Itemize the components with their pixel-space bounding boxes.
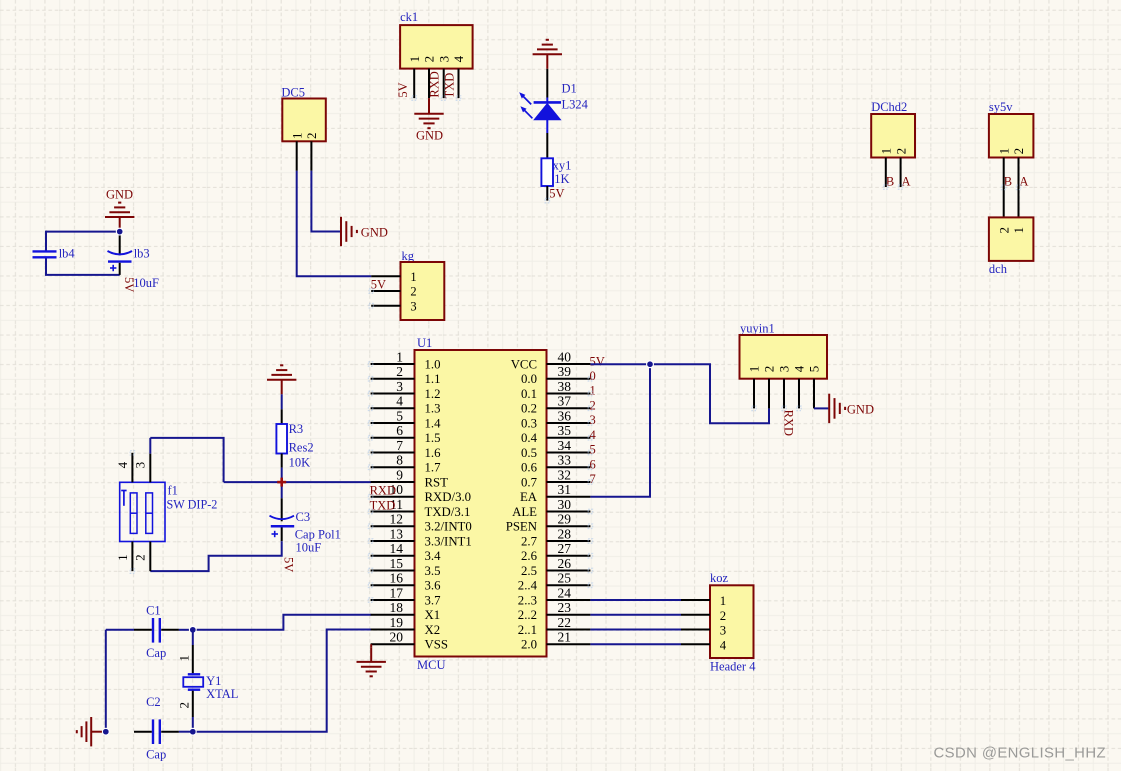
svg-text:17: 17 — [390, 585, 404, 600]
svg-text:30: 30 — [558, 497, 572, 512]
svg-text:CSDN @ENGLISH_HHZ: CSDN @ENGLISH_HHZ — [933, 746, 1106, 762]
pin U1.1 (1.0) — [371, 349, 441, 371]
pin Y1.2 — [177, 691, 193, 717]
pin f1.2 — [133, 542, 151, 572]
svg-text:21: 21 — [558, 630, 572, 645]
wire - C2 node to U1 pin19 (X2) — [193, 630, 371, 732]
svg-text:24: 24 — [558, 585, 572, 600]
svg-text:1.3: 1.3 — [425, 402, 441, 416]
svg-text:5V: 5V — [396, 82, 410, 97]
svg-text:GND: GND — [106, 187, 133, 201]
wire - Y1 top lead — [192, 630, 194, 645]
svg-text:34: 34 — [558, 438, 572, 453]
wire - U1 pin21 to koz.4 — [590, 643, 681, 645]
svg-text:31: 31 — [558, 482, 572, 497]
svg-text:TXD: TXD — [370, 498, 396, 512]
wire - Y1 bottom lead — [192, 717, 194, 732]
svg-text:35: 35 — [558, 423, 572, 438]
svg-text:f1: f1 — [168, 484, 178, 498]
junction - C1/Y1 node — [189, 626, 196, 633]
svg-text:26: 26 — [558, 556, 572, 571]
wire - node down to C3 — [281, 482, 283, 498]
junction - Y1/C2 node — [189, 728, 196, 735]
pin U1.40 (VCC) — [511, 349, 591, 371]
svg-text:RST: RST — [425, 475, 449, 489]
svg-text:3.2/INT0: 3.2/INT0 — [425, 520, 472, 534]
svg-text:2.5: 2.5 — [521, 564, 537, 578]
svg-text:0.2: 0.2 — [521, 402, 537, 416]
pin DChd2.1 — [885, 158, 887, 188]
pin U1.4 (1.3) — [371, 394, 441, 416]
svg-text:16: 16 — [390, 571, 404, 586]
pin yuyin1.1 — [753, 379, 755, 409]
wire - 5V branch to U1 pin31 (EA) — [590, 364, 650, 497]
pin U1.34 (0.5) — [521, 438, 590, 460]
power port GND (ck1 pin2) — [414, 98, 443, 142]
svg-text:Cap Pol1: Cap Pol1 — [295, 528, 341, 542]
pin yuyin1.5 — [813, 379, 815, 409]
svg-text:3: 3 — [777, 366, 792, 373]
svg-text:3.4: 3.4 — [425, 549, 442, 563]
svg-text:23: 23 — [558, 600, 572, 615]
svg-text:Y1: Y1 — [206, 674, 221, 688]
pin DC5.1 — [296, 141, 298, 171]
pin yuyin1.2 — [768, 379, 770, 409]
pin U1.31 (EA) — [520, 482, 590, 504]
svg-text:ck1: ck1 — [400, 10, 418, 24]
svg-text:1.2: 1.2 — [425, 387, 441, 401]
connector DChd2 — [871, 100, 915, 157]
svg-text:2: 2 — [410, 285, 416, 299]
pin U1.8 (1.7) — [371, 453, 441, 475]
pin U1.33 (0.6) — [521, 453, 590, 475]
wire - DC5 pin1 to kg pin1 — [297, 171, 372, 276]
pin U1.23 (2..2) — [518, 600, 591, 622]
svg-text:3: 3 — [133, 462, 148, 469]
pin U1.7 (1.6) — [371, 438, 441, 460]
pin C1.2 stub — [161, 629, 179, 631]
pin U1.19 (X2) — [371, 615, 441, 637]
wire - GND to R3 — [281, 394, 283, 409]
svg-text:VSS: VSS — [425, 638, 448, 652]
power port GND (yuyin1) — [829, 394, 874, 423]
svg-text:PSEN: PSEN — [506, 520, 537, 534]
svg-text:25: 25 — [558, 571, 572, 586]
svg-text:X1: X1 — [425, 608, 441, 622]
wire - lb4 left branch down — [45, 231, 47, 252]
svg-text:D1: D1 — [562, 82, 577, 96]
pin ck1.3 — [443, 69, 445, 99]
wire - U1 pin23 to koz.2 — [590, 614, 681, 616]
wire - RST rail to U1 pin 9 — [224, 481, 372, 483]
svg-text:SW DIP-2: SW DIP-2 — [167, 497, 218, 511]
pin kg.2 — [371, 290, 400, 292]
svg-text:0.3: 0.3 — [521, 416, 537, 430]
svg-text:38: 38 — [558, 379, 572, 394]
pin C1.1 stub — [134, 629, 152, 631]
resistor R3 — [276, 422, 313, 469]
svg-text:2..2: 2..2 — [518, 608, 537, 622]
svg-text:1.1: 1.1 — [425, 372, 441, 386]
svg-text:3: 3 — [410, 300, 416, 314]
svg-text:Cap: Cap — [146, 646, 166, 660]
capacitor C1 — [146, 603, 166, 660]
pin R3.1 stub — [281, 409, 283, 424]
svg-text:2..1: 2..1 — [518, 623, 537, 637]
wire - C1 right to Y1 node — [179, 629, 193, 631]
svg-text:3: 3 — [720, 624, 726, 638]
svg-text:39: 39 — [558, 364, 572, 379]
svg-text:DChd2: DChd2 — [871, 100, 907, 114]
pin f1.4 — [115, 453, 132, 483]
junction cross (R3/RST/C3 node) — [277, 478, 286, 487]
connector ck1 — [400, 10, 473, 69]
wire - U1 pin22 to koz.3 — [590, 629, 681, 631]
svg-text:33: 33 — [558, 453, 572, 468]
svg-text:lb3: lb3 — [134, 246, 150, 260]
svg-text:VCC: VCC — [511, 357, 537, 371]
svg-text:6: 6 — [396, 423, 403, 438]
svg-text:2..3: 2..3 — [518, 593, 537, 607]
wire - R3 to RST rail — [281, 468, 283, 483]
svg-text:1.4: 1.4 — [425, 416, 442, 430]
svg-text:2: 2 — [422, 56, 437, 63]
svg-text:8: 8 — [396, 453, 403, 468]
wire - C3 to 5V/f1 rail — [150, 541, 281, 571]
pin U1.38 (0.1) — [521, 379, 590, 401]
LED D1 — [519, 82, 588, 134]
svg-text:koz: koz — [710, 571, 729, 585]
svg-text:Res2: Res2 — [289, 440, 314, 454]
svg-text:20: 20 — [390, 630, 404, 645]
svg-text:RXD: RXD — [370, 484, 396, 498]
svg-text:5V: 5V — [590, 354, 605, 368]
svg-text:sy5v: sy5v — [989, 100, 1013, 114]
svg-text:22: 22 — [558, 615, 572, 630]
svg-text:2: 2 — [177, 702, 192, 709]
svg-text:MCU: MCU — [417, 658, 445, 672]
connector sy5v — [989, 100, 1034, 157]
svg-text:7: 7 — [396, 438, 403, 453]
pin yuyin1.3 — [783, 379, 785, 409]
connector yuyin1 — [740, 322, 828, 379]
svg-text:2: 2 — [762, 366, 777, 373]
pin U1.13 (3.3/INT1) — [371, 526, 472, 548]
svg-text:ALE: ALE — [512, 505, 537, 519]
power port GND (bottom-left) — [77, 717, 106, 746]
svg-text:3.7: 3.7 — [425, 593, 442, 607]
pin U1.25 (2..4) — [518, 571, 591, 593]
svg-text:1: 1 — [115, 554, 130, 561]
svg-text:29: 29 — [558, 512, 572, 527]
svg-text:R3: R3 — [289, 422, 304, 436]
svg-text:27: 27 — [558, 541, 572, 556]
svg-text:19: 19 — [390, 615, 404, 630]
wire - left vertical rail — [105, 630, 107, 732]
power port GND (U1 VSS) — [357, 644, 386, 676]
svg-text:1.5: 1.5 — [425, 431, 441, 445]
pin U1.20 (VSS) — [371, 630, 448, 652]
junction - ground rail corner — [102, 728, 109, 735]
pin f1.3 — [133, 454, 151, 483]
pin f1.1 — [115, 542, 132, 572]
svg-text:A: A — [1019, 175, 1028, 189]
svg-text:kg: kg — [402, 249, 415, 263]
svg-text:1: 1 — [396, 349, 403, 364]
svg-text:2..4: 2..4 — [518, 579, 538, 593]
pin koz.3 — [681, 629, 710, 631]
svg-text:13: 13 — [390, 526, 404, 541]
svg-text:XTAL: XTAL — [206, 687, 238, 701]
svg-text:GND: GND — [416, 128, 443, 142]
capacitor C2 — [146, 695, 166, 762]
svg-text:5V: 5V — [549, 187, 564, 201]
pin yuyin1.4 — [798, 379, 800, 409]
pin sy5v.2 / wire to dch.1 — [1018, 158, 1020, 218]
pin U1.2 (1.1) — [371, 364, 441, 386]
connector DC5 — [281, 85, 325, 141]
svg-text:0.7: 0.7 — [521, 475, 538, 489]
pin U1.27 (2.6) — [521, 541, 590, 563]
capacitor lb4 — [33, 246, 76, 260]
svg-text:2.7: 2.7 — [521, 534, 538, 548]
svg-text:2: 2 — [396, 364, 403, 379]
svg-text:1: 1 — [177, 655, 192, 662]
svg-text:C2: C2 — [146, 695, 161, 709]
pin U1.37 (0.2) — [521, 394, 590, 416]
capacitor C3 (polarized) — [270, 510, 341, 555]
svg-text:1: 1 — [747, 366, 762, 373]
svg-text:10uF: 10uF — [296, 541, 322, 555]
connector dch — [989, 217, 1034, 276]
free pin hotspots — [130, 96, 1021, 602]
svg-text:1K: 1K — [554, 172, 569, 186]
svg-text:X2: X2 — [425, 623, 441, 637]
pin C2.1 stub — [134, 731, 152, 733]
svg-text:0.6: 0.6 — [521, 461, 538, 475]
svg-text:0.0: 0.0 — [521, 372, 537, 386]
pin ck1.4 — [458, 69, 460, 99]
connector kg — [401, 249, 445, 320]
junction - GND rail — [116, 228, 123, 235]
svg-text:3.6: 3.6 — [425, 579, 442, 593]
wire - C1 left to ground rail — [106, 629, 134, 631]
svg-text:C1: C1 — [146, 603, 161, 617]
svg-text:lb4: lb4 — [59, 246, 76, 260]
pin U1.22 (2..1) — [518, 615, 591, 637]
wire - bottom rail between lb4 and lb3 — [46, 257, 120, 275]
svg-text:RXD/3.0: RXD/3.0 — [425, 490, 472, 504]
pin kg.1 — [371, 275, 400, 277]
junction - 5V rail — [647, 361, 654, 368]
wire - 5V rail from U1 pin40 — [590, 364, 769, 423]
power port GND (above D1) — [533, 40, 562, 69]
pin U1.18 (X1) — [371, 600, 441, 622]
pin U1.35 (0.4) — [521, 423, 590, 445]
pin U1.12 (3.2/INT0) — [371, 512, 472, 534]
svg-text:1: 1 — [720, 594, 726, 608]
pin ck1.2 — [428, 69, 430, 99]
svg-text:dch: dch — [989, 262, 1008, 276]
pin U1.5 (1.4) — [371, 408, 441, 430]
power port GND (DC5) — [341, 217, 388, 246]
svg-text:2: 2 — [893, 148, 908, 155]
svg-text:B: B — [1004, 175, 1012, 189]
svg-text:4: 4 — [792, 365, 807, 372]
svg-text:36: 36 — [558, 408, 572, 423]
svg-text:2.0: 2.0 — [521, 638, 537, 652]
pin DC5.2 — [310, 141, 312, 171]
svg-text:1.0: 1.0 — [425, 357, 441, 371]
svg-text:EA: EA — [520, 490, 538, 504]
pin U1.11 (TXD/3.1) — [371, 497, 471, 519]
svg-text:14: 14 — [390, 541, 404, 556]
svg-text:5V: 5V — [282, 557, 296, 572]
svg-text:1: 1 — [407, 56, 422, 63]
svg-text:TXD: TXD — [442, 73, 456, 99]
svg-text:4: 4 — [720, 638, 727, 652]
wire - DC5 pin2 to GND — [311, 171, 340, 232]
svg-text:2: 2 — [996, 227, 1011, 234]
wire - yuyin1 pin5 to GND — [814, 407, 828, 409]
pin U1.36 (0.3) — [521, 408, 590, 430]
svg-text:1: 1 — [1011, 227, 1026, 234]
svg-text:3.5: 3.5 — [425, 564, 441, 578]
svg-text:TXD/3.1: TXD/3.1 — [425, 505, 471, 519]
svg-text:L324: L324 — [562, 98, 589, 112]
svg-text:3.3/INT1: 3.3/INT1 — [425, 534, 472, 548]
pin U1.15 (3.5) — [371, 556, 441, 578]
pin U1.16 (3.6) — [371, 571, 441, 593]
svg-text:9: 9 — [396, 467, 403, 482]
wire - GND to caps top rail — [46, 231, 120, 233]
wire - Y1 node to U1 pin18 (X1) — [193, 615, 371, 630]
svg-text:18: 18 — [390, 600, 404, 615]
pin kg.3 — [371, 305, 400, 307]
svg-text:yuyin1: yuyin1 — [740, 322, 775, 336]
pin xy1.2 stub — [546, 186, 548, 201]
pin U1.6 (1.5) — [371, 423, 441, 445]
svg-text:32: 32 — [558, 467, 572, 482]
svg-text:DC5: DC5 — [281, 85, 305, 99]
svg-text:1: 1 — [996, 148, 1011, 155]
svg-text:2: 2 — [720, 609, 726, 623]
svg-text:4: 4 — [115, 461, 130, 468]
svg-text:3: 3 — [436, 56, 451, 63]
svg-text:0.5: 0.5 — [521, 446, 537, 460]
wire - f1 pin3 riser — [150, 438, 223, 482]
svg-text:10K: 10K — [289, 455, 311, 469]
pin U1.29 (PSEN) — [506, 512, 591, 534]
svg-text:Cap: Cap — [146, 748, 166, 762]
pin Y1.1 — [177, 645, 193, 673]
pin koz.4 — [681, 643, 710, 645]
svg-text:4: 4 — [396, 394, 403, 409]
svg-text:5: 5 — [396, 408, 403, 423]
svg-text:Header 4: Header 4 — [710, 659, 756, 673]
svg-text:2: 2 — [304, 133, 319, 140]
svg-text:U1: U1 — [417, 336, 432, 350]
svg-text:xy1: xy1 — [553, 159, 572, 173]
pin U1.39 (0.0) — [521, 364, 590, 386]
svg-text:28: 28 — [558, 526, 572, 541]
pin ck1.1 — [413, 69, 415, 99]
pin U1.30 (ALE) — [512, 497, 590, 519]
svg-text:2: 2 — [133, 554, 148, 561]
pin C3.1 stub — [281, 498, 283, 521]
wire - C2 right to node — [179, 731, 193, 733]
svg-text:4: 4 — [451, 55, 466, 62]
svg-text:15: 15 — [390, 556, 404, 571]
pin U1.28 (2.7) — [521, 526, 590, 548]
pin koz.2 — [681, 614, 710, 616]
pin koz.1 — [681, 599, 710, 601]
wire - U1 pin24 to koz.1 — [590, 599, 681, 601]
power port GND (top-left group) — [105, 187, 134, 231]
pin DChd2.2 — [900, 158, 902, 188]
svg-text:RXD: RXD — [428, 71, 442, 97]
svg-text:12: 12 — [390, 512, 404, 527]
pin U1.21 (2.0) — [521, 630, 590, 652]
svg-text:3: 3 — [396, 379, 403, 394]
pin R3.2 stub — [281, 454, 283, 468]
svg-text:2: 2 — [1011, 148, 1026, 155]
svg-text:5: 5 — [807, 366, 822, 373]
pin U1.17 (3.7) — [371, 585, 441, 607]
svg-text:2.6: 2.6 — [521, 549, 538, 563]
connector koz — [710, 571, 756, 673]
svg-text:0.4: 0.4 — [521, 431, 538, 445]
svg-text:GND: GND — [847, 402, 874, 416]
switch f1 SW DIP-2 — [120, 482, 218, 541]
svg-text:GND: GND — [361, 225, 388, 239]
wire - D1 cathode to xy1 — [546, 133, 548, 158]
pin U1.9 (RST) — [371, 467, 449, 489]
pin U1.26 (2.5) — [521, 556, 590, 578]
svg-text:B: B — [886, 175, 894, 189]
pin U1.14 (3.4) — [371, 541, 441, 563]
svg-text:1: 1 — [410, 270, 416, 284]
svg-text:5V: 5V — [371, 278, 386, 292]
svg-text:1.6: 1.6 — [425, 446, 442, 460]
resistor xy1 — [541, 158, 571, 186]
IC U1 (MCU) — [415, 336, 547, 672]
pin U1.24 (2..3) — [518, 585, 591, 607]
svg-text:1: 1 — [879, 148, 894, 155]
pin C3.2 stub — [281, 528, 283, 542]
svg-text:37: 37 — [558, 394, 572, 409]
pin U1.10 (RXD/3.0) — [371, 482, 471, 504]
svg-text:40: 40 — [558, 349, 572, 364]
pin U1.32 (0.7) — [521, 467, 590, 489]
svg-text:C3: C3 — [296, 510, 311, 524]
pin U1.3 (1.2) — [371, 379, 441, 401]
power port GND (above R3) — [267, 365, 296, 394]
svg-text:10uF: 10uF — [133, 276, 159, 290]
svg-text:0.1: 0.1 — [521, 387, 537, 401]
crystal Y1 — [183, 674, 238, 701]
svg-text:RXD: RXD — [782, 410, 796, 436]
wire - GND to D1 anode — [546, 69, 548, 98]
svg-text:1: 1 — [289, 133, 304, 140]
svg-text:1.7: 1.7 — [425, 461, 442, 475]
pin C2.2 stub — [161, 731, 179, 733]
pin sy5v.1 / wire to dch.2 — [1003, 158, 1005, 218]
capacitor lb3 (polarized) — [108, 235, 150, 275]
